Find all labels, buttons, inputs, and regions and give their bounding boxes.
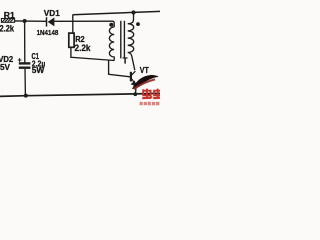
- wire R2 bottom to winding bottom junction: [71, 47, 114, 60]
- bottom rail: [0, 93, 160, 96]
- node top rail to secondary: [131, 10, 135, 14]
- svg-text:T: T: [123, 57, 128, 66]
- node C1 to bottom rail: [24, 94, 28, 98]
- wire VD1 to transformer corner: [54, 21, 114, 27]
- plus sign of C1: [18, 58, 22, 62]
- transistor VT: [131, 71, 137, 94]
- transformer core: [121, 21, 125, 59]
- svg-text:R1: R1: [4, 11, 16, 20]
- capacitor C1: [19, 63, 31, 95]
- watermark swoosh red underline: [134, 79, 156, 89]
- svg-text:5W: 5W: [32, 65, 45, 75]
- wire junction down to C1: [24, 21, 26, 63]
- svg-text:2.2k: 2.2k: [0, 24, 15, 34]
- svg-text:1N4148: 1N4148: [37, 28, 59, 37]
- resistor R2: [69, 33, 74, 47]
- node junction above C1: [23, 19, 27, 23]
- svg-text:5V: 5V: [0, 62, 10, 72]
- transformer T secondary winding: [128, 13, 135, 70]
- wire top rail down to R2 (crosses VD1 wire): [72, 15, 74, 33]
- top rail: [73, 11, 160, 14]
- svg-text:VT: VT: [140, 65, 150, 75]
- phase dot primary: [109, 23, 113, 27]
- wire junction down to transistor base: [109, 60, 131, 77]
- svg-text:VD1: VD1: [44, 8, 60, 18]
- watermark character 2 (clipped): [153, 89, 161, 99]
- wire R1 to VD1: [15, 20, 47, 22]
- diode VD1: [47, 17, 55, 26]
- watermark swoosh logo: [132, 75, 159, 89]
- resistor R1: [1, 19, 14, 23]
- watermark character 1: [142, 89, 152, 99]
- phase dot secondary: [136, 22, 140, 26]
- svg-text:2.2k: 2.2k: [75, 43, 92, 53]
- watermark small red text row: [140, 102, 160, 106]
- node emitter to bottom rail: [133, 92, 137, 96]
- transformer T primary winding: [109, 27, 114, 61]
